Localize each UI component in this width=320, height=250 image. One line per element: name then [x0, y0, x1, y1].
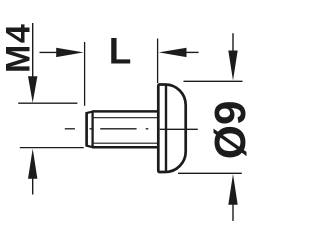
M4 arrowhead down — [28, 76, 37, 103]
dia9 ext line bottom — [178, 172, 242, 174]
dia9 arrowhead up — [228, 174, 237, 205]
M4 arrow bottom shaft — [32, 178, 34, 195]
dia9 arrow bottom shaft — [232, 204, 234, 221]
L arrowhead left — [159, 48, 187, 57]
L arrow right shaft — [186, 51, 198, 53]
shank outer bottom line — [92, 146, 158, 149]
L arrow left shaft — [40, 51, 58, 53]
M4 arrow top shaft — [32, 23, 34, 77]
dia9 arrow top shaft — [232, 33, 234, 51]
thread minor line bottom — [94, 142, 159, 144]
shank left face — [85, 112, 88, 146]
shank chamfer bottom diagonal — [86, 146, 93, 148]
shank outer top line — [92, 110, 158, 113]
L ext line right — [157, 39, 159, 84]
head inner edge line — [165, 85, 167, 172]
svg-text:L: L — [109, 30, 132, 71]
shank chamfer top diagonal — [86, 111, 93, 113]
L arrowhead right — [56, 48, 83, 57]
thread minor line top — [94, 117, 159, 119]
centerline (screw axis, dash-dot) — [65, 128, 198, 131]
L ext line left — [84, 42, 86, 106]
shank chamfer edge vertical — [91, 112, 93, 148]
svg-text:Ø9: Ø9 — [206, 100, 250, 159]
dia9 arrowhead down — [228, 51, 237, 81]
M4 arrowhead up — [28, 149, 37, 179]
head outline (dome head) — [158, 85, 185, 173]
dia9 ext line top — [184, 80, 243, 82]
svg-text:M4: M4 — [0, 23, 38, 73]
M4 ext line top — [18, 102, 77, 104]
M4 ext line bottom — [20, 147, 84, 149]
